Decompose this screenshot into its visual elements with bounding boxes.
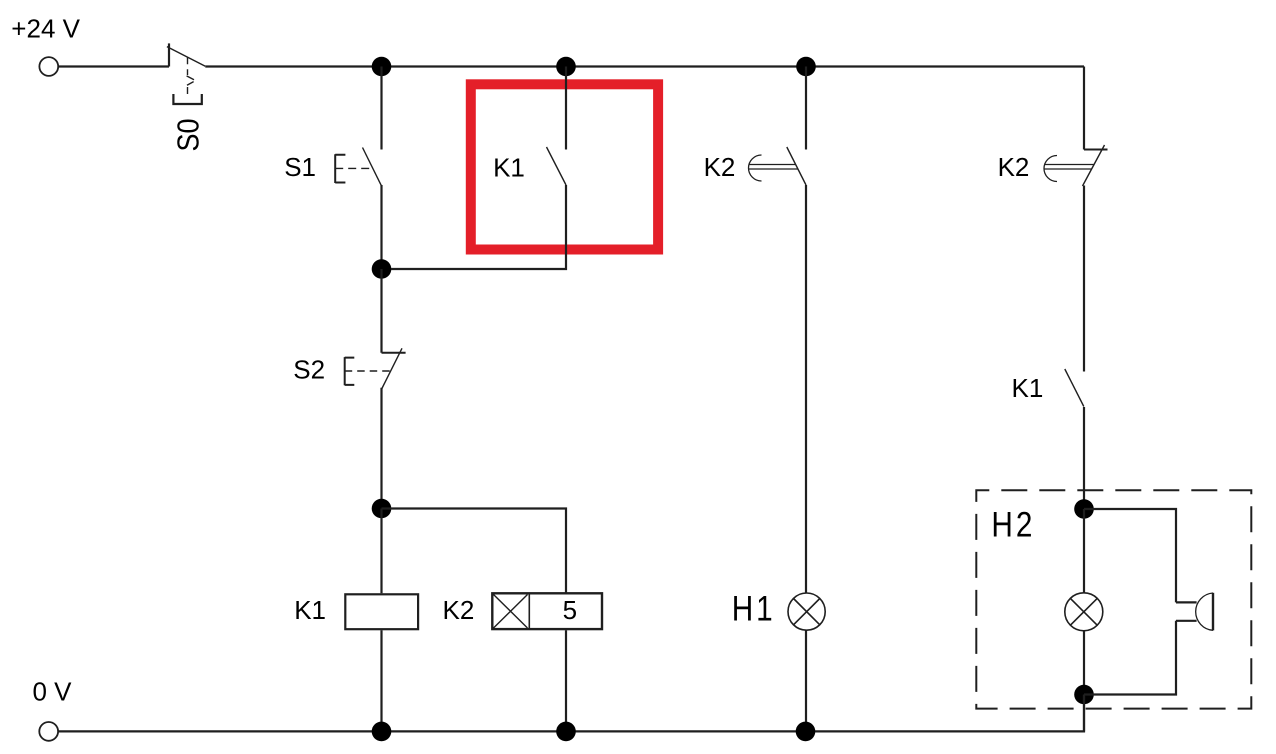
wire: branch1 K1 coil to rail [380,630,382,731]
timer coil K2 [492,593,602,629]
wire: +24V rail left segment [58,65,169,67]
contact K2 (NO, relay) [749,147,807,185]
pushbutton S1 (NO) [335,148,381,186]
wire: H2 node to lamp [1083,509,1085,593]
svg-text:S2: S2 [293,354,325,384]
wire: H2 lamp to bottom node [1083,631,1085,695]
svg-text:S1: S1 [284,152,316,182]
wire: H2 bottom node to rail [1083,695,1085,732]
svg-text:K2: K2 [704,152,736,182]
node: H2 bottom [1074,685,1094,705]
node: H2 top [1074,499,1094,519]
svg-text:K2: K2 [998,152,1030,182]
svg-text:H1: H1 [732,589,776,628]
wire: branch1 S2 to node [380,388,382,509]
wire: branch4 top corner [1083,67,1085,150]
buzzer [1176,593,1213,631]
wire: branch4 K1 to H2 node [1083,407,1085,509]
lamp H1 [788,593,825,630]
svg-text:0 V: 0 V [33,677,73,707]
relay coil K1 [345,594,418,629]
+24 V terminal [39,57,58,76]
H2 dashed enclosure [976,490,1251,708]
svg-text:H2: H2 [991,505,1035,544]
wire: branch1 node to K1 coil [380,509,382,594]
wire: H2 parallel branch top [1084,509,1176,602]
red highlight box around K1 contact [471,84,658,249]
svg-text:+24 V: +24 V [11,13,80,43]
wire: branch3 top [805,67,807,150]
lamp H2 [1065,593,1103,631]
svg-text:K1: K1 [1012,373,1044,403]
node: rail/branch3 bottom [796,722,816,742]
svg-text:5: 5 [563,595,577,625]
wire: branch2 down and left to node [391,185,566,269]
contact K1 (NO, branch4) [1065,369,1084,407]
node: branch1/K1-contact link [372,259,392,279]
wire: node to K2 coil branch [382,509,567,594]
0 V terminal [39,722,58,741]
wire: branch1 S1 to node [380,185,382,269]
node: rail/branch2 [556,57,576,77]
wire: branch1 node to S2 [380,269,382,353]
wire: branch2 top [565,67,567,150]
node: rail/branch1 [372,57,392,77]
node: rail/branch3 [796,57,816,77]
wire: K2 coil to rail [565,630,567,731]
svg-text:S0: S0 [172,119,206,152]
wire: 0V rail [58,695,1084,732]
contact K2 (NC, relay) [1044,145,1108,186]
pushbutton S2 (NC) [345,348,406,388]
node: rail/branch2 bottom [556,722,576,742]
svg-text:K1: K1 [294,595,326,625]
wire: H2 parallel branch bottom [1084,621,1176,695]
wire: branch3 to H1 [805,185,807,593]
switch S0 (NC with detent) [167,43,205,104]
svg-text:K2: K2 [443,595,475,625]
node: rail/branch1 bottom [372,722,392,742]
wire: H1 to rail [805,630,807,731]
wire: +24V rail right of S0 [205,65,1084,67]
svg-text:K1: K1 [493,152,525,182]
node: branch1/K2-coil link [372,499,392,519]
wire: branch1 top [380,67,382,150]
contact K1 (NO) [547,147,567,185]
wire: branch4 K2 to K1 [1083,186,1085,372]
